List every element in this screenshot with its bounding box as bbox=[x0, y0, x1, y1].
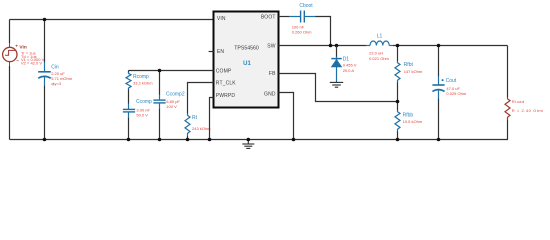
svg-text:RT_CLK: RT_CLK bbox=[216, 80, 236, 86]
svg-text:PWRPD: PWRPD bbox=[216, 93, 236, 99]
wire SW line bbox=[279, 45, 367, 47]
resistor Rt body bbox=[185, 114, 211, 137]
svg-text:0.021 Ohm: 0.021 Ohm bbox=[369, 56, 389, 61]
diode D1 bbox=[331, 46, 357, 83]
capacitor Ccomp2 bbox=[153, 91, 184, 109]
node junction bottom rail Cin bbox=[43, 138, 47, 142]
node junction Cboot/SW bbox=[329, 44, 333, 48]
node junction bottom rail PWRPD bbox=[208, 138, 212, 142]
svg-text:SW: SW bbox=[267, 44, 275, 50]
resistor Rt bbox=[0, 0, 1, 1]
wire Cout branch bbox=[438, 46, 440, 77]
wire Cboot to SW node bbox=[316, 17, 331, 46]
node junction bottom rail Ccomp2 bbox=[158, 138, 162, 142]
wire GND pin bbox=[279, 93, 294, 140]
wire Rcomp/Ccomp branch bbox=[128, 71, 130, 73]
svg-text:Rcomp: Rcomp bbox=[133, 74, 149, 80]
wire Cin branch bbox=[44, 20, 46, 63]
svg-text:−: − bbox=[16, 59, 19, 64]
svg-text:50.0 V: 50.0 V bbox=[136, 112, 148, 117]
node junction D1/SW bbox=[335, 44, 339, 48]
resistor Rcomp bbox=[126, 72, 153, 90]
node junction bottom rail Rfbb bbox=[396, 138, 400, 142]
svg-text:BOOT: BOOT bbox=[261, 14, 276, 20]
svg-text:Cin: Cin bbox=[51, 64, 59, 70]
node junction SW/Cout bbox=[437, 44, 441, 48]
svg-text:22.0 uH: 22.0 uH bbox=[369, 51, 383, 56]
capacitor Ccomp bbox=[123, 99, 152, 118]
resistor Rload bbox=[505, 97, 544, 120]
node junction bottom rail ground bbox=[247, 138, 251, 142]
svg-text:20.0 A: 20.0 A bbox=[343, 68, 355, 73]
svg-text:Cboot: Cboot bbox=[299, 3, 313, 9]
wire BOOT to Cboot corner bbox=[279, 16, 290, 18]
svg-text:V2 = 42.0 V: V2 = 42.0 V bbox=[21, 60, 42, 65]
svg-text:33.2 kOhm: 33.2 kOhm bbox=[133, 81, 153, 86]
wire Ccomp2 branch bbox=[159, 71, 161, 96]
wire right edge / Rload branch bbox=[507, 46, 509, 98]
svg-text:Rt: Rt bbox=[192, 115, 198, 121]
wire FB bbox=[279, 74, 398, 102]
svg-text:R = 2.40 Ohm: R = 2.40 Ohm bbox=[512, 108, 544, 113]
wire top rail bbox=[10, 19, 214, 21]
svg-text:0.455 V: 0.455 V bbox=[343, 62, 357, 67]
svg-text:Vin: Vin bbox=[19, 44, 26, 50]
svg-text:TPS54560: TPS54560 bbox=[234, 46, 259, 52]
svg-text:100 V: 100 V bbox=[166, 104, 177, 109]
wire left vertical from rail to Vin source bbox=[9, 20, 11, 44]
capacitor Cin bbox=[38, 62, 73, 86]
wire COMP bbox=[129, 70, 214, 72]
svg-text:Ccomp2: Ccomp2 bbox=[166, 91, 185, 97]
resistor Rfbb bbox=[395, 110, 423, 132]
wire EN stub bbox=[209, 51, 214, 53]
capacitor Cout bbox=[432, 76, 466, 99]
svg-text:100 nF: 100 nF bbox=[292, 24, 305, 29]
ground for D1 bbox=[330, 82, 343, 87]
IC U1 TPS54560 bbox=[214, 12, 279, 108]
ground bottom center bbox=[242, 140, 254, 149]
node junction top rail / Cin bbox=[43, 18, 47, 22]
resistor Rfbt bbox=[395, 61, 423, 83]
svg-text:EN: EN bbox=[217, 49, 224, 55]
svg-text:10.5 kOhm: 10.5 kOhm bbox=[403, 119, 423, 124]
svg-text:Cout: Cout bbox=[446, 78, 457, 84]
node junction SW/Rfbt bbox=[396, 44, 400, 48]
wire PWRPD bbox=[210, 98, 214, 140]
node junction bottom rail Cout bbox=[437, 138, 441, 142]
svg-text:Ccomp: Ccomp bbox=[136, 99, 152, 105]
svg-text:FB: FB bbox=[269, 71, 276, 77]
wire bottom rail bbox=[10, 139, 509, 141]
node junction COMP/Ccomp2 bbox=[158, 69, 162, 73]
wire Rt to bottom rail bbox=[187, 136, 189, 140]
node junction bottom rail Ccomp bbox=[127, 138, 131, 142]
svg-text:COMP: COMP bbox=[216, 69, 232, 75]
svg-text:qty=3: qty=3 bbox=[51, 81, 62, 86]
voltage source Vin bbox=[3, 44, 45, 65]
node junction bottom rail GND pin bbox=[292, 138, 296, 142]
svg-text:U1: U1 bbox=[243, 61, 251, 67]
svg-text:Rload: Rload bbox=[512, 99, 525, 104]
wire Rfbt/Rfbb branch bbox=[397, 46, 399, 62]
svg-text:L1: L1 bbox=[377, 33, 383, 39]
node junction FB bbox=[396, 100, 400, 104]
svg-text:Rfbb: Rfbb bbox=[403, 112, 414, 118]
svg-text:147 kOhm: 147 kOhm bbox=[404, 69, 423, 74]
svg-text:Rfbt: Rfbt bbox=[404, 62, 414, 68]
svg-text:0.025 Ohm: 0.025 Ohm bbox=[446, 91, 466, 96]
node junction bottom rail Rt bbox=[186, 138, 190, 142]
wire left vertical below Vin source to bottom rail bbox=[9, 62, 11, 67]
svg-text:+: + bbox=[15, 45, 18, 50]
inductor L1 bbox=[366, 33, 393, 61]
svg-text:0.260 Ohm: 0.260 Ohm bbox=[292, 30, 312, 35]
wire RT_CLK bbox=[188, 83, 214, 114]
svg-text:GND: GND bbox=[264, 92, 276, 98]
svg-text:243 kOhm: 243 kOhm bbox=[192, 126, 211, 131]
svg-text:VIN: VIN bbox=[217, 16, 226, 22]
capacitor Cboot bbox=[289, 11, 316, 23]
